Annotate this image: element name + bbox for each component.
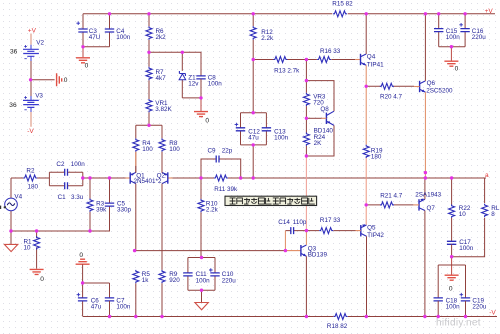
capacitor C11 (183, 258, 215, 291)
junction at 465.1,13.8 (463, 12, 466, 15)
svg-text:220u: 220u (472, 34, 487, 41)
wire R19 bottom to Q5 (salmon, crosses output rail) (365, 158, 367, 225)
junction at 201.5,290.2 (200, 289, 203, 292)
junction at 109.5,178 (108, 176, 111, 179)
svg-text:36: 36 (9, 102, 17, 109)
junction at 201.5,257.5 (200, 256, 203, 259)
capacitor C3 (76, 14, 100, 47)
svg-text:36: 36 (10, 49, 18, 56)
svg-text:100: 100 (169, 146, 180, 153)
wire zener branch y=52.3 (149, 52, 201, 76)
svg-text:TIP41: TIP41 (367, 61, 384, 68)
junction at 253.2,59.5 (252, 58, 255, 61)
wire C12/C13 bottom to output rail (241, 145, 267, 178)
svg-text:0: 0 (64, 77, 68, 84)
svg-text:47u: 47u (248, 135, 259, 142)
capacitor C5 (105, 178, 132, 213)
capacitor C9 (201, 147, 241, 178)
svg-text:100n: 100n (208, 81, 223, 88)
resistor R17 (306, 217, 355, 233)
wire input/output main horizontal y=178 (83, 177, 486, 179)
svg-text:Q4: Q4 (367, 54, 376, 61)
capacitor C6 (77, 283, 102, 317)
svg-text:+V: +V (485, 8, 494, 15)
svg-text:R16 33: R16 33 (320, 48, 341, 55)
junction at 306.4,118.3 (305, 117, 308, 120)
svg-text:0: 0 (455, 66, 459, 73)
svg-text:39k: 39k (96, 206, 107, 213)
capacitor C17 (447, 239, 474, 257)
svg-text:BD139: BD139 (308, 252, 328, 259)
resistor R22 (449, 178, 471, 241)
svg-text:100n: 100n (71, 161, 86, 168)
junction at 149,125.3 (147, 124, 150, 127)
svg-text:V2: V2 (36, 39, 44, 46)
transistor Q8 BD140 (306, 106, 334, 156)
wire C3/C4 bottom (83, 46, 110, 48)
junction at 253.2,144.9 (252, 143, 255, 146)
transistor Q3 BD139 (285, 231, 327, 317)
svg-text:0: 0 (40, 276, 44, 283)
svg-text:3.82K: 3.82K (155, 106, 172, 113)
resistor R6 (146, 14, 166, 53)
wire Q3 base line y=250.6 (135, 250, 286, 252)
junction at 306.4,156 (305, 154, 308, 157)
svg-text:920: 920 (169, 277, 180, 284)
svg-text:100n: 100n (116, 304, 131, 311)
junction at 201,97.9 (199, 96, 202, 99)
wire -V bottom rail right segment (348, 316, 497, 318)
junction at 451.4,46.7 (450, 45, 453, 48)
svg-text:180: 180 (371, 153, 382, 160)
junction at 30.6,79.8 (29, 78, 32, 81)
zener Z1 (179, 52, 199, 98)
junction at 306.4,59.5 (305, 58, 308, 61)
svg-text:R11 39k: R11 39k (214, 186, 238, 193)
svg-text:47U: 47U (89, 34, 101, 41)
junction at 306.4,316.5 (305, 315, 308, 318)
wire VAS column (light) (305, 156, 307, 231)
svg-text:hifidiy.net: hifidiy.net (436, 318, 481, 329)
resistor R5 (133, 270, 151, 317)
svg-text:10: 10 (24, 244, 32, 251)
junction at 253.2,112.7 (252, 111, 255, 114)
svg-text:R2: R2 (26, 168, 35, 175)
junction at 162,316.5 (160, 315, 163, 318)
svg-text:100n: 100n (116, 34, 131, 41)
capacitor C19 (460, 293, 487, 317)
svg-text:R13 2.7k: R13 2.7k (274, 68, 300, 75)
resistor R7 (146, 52, 166, 99)
capacitor C8 (196, 75, 222, 98)
svg-text:2SC5200: 2SC5200 (426, 88, 453, 95)
junction at 366.3,316.5 (365, 315, 368, 318)
resistor R20 (366, 83, 414, 100)
svg-text:Q7: Q7 (427, 205, 436, 212)
svg-text:Q8: Q8 (320, 106, 329, 113)
capacitor C14 (278, 219, 307, 234)
tooltip box (225, 196, 317, 205)
resistor R9 (159, 270, 180, 317)
svg-text:R17 33: R17 33 (320, 217, 341, 224)
capacitor C10 (209, 258, 236, 291)
junction at 149,13.8 (147, 12, 150, 15)
capacitor C4 (105, 14, 131, 47)
resistor R10 (198, 178, 219, 258)
svg-text:2.2k: 2.2k (206, 207, 219, 214)
svg-text:TIP42: TIP42 (367, 232, 384, 239)
transistor Q1 2N5401 (126, 152, 146, 251)
svg-text:V4: V4 (14, 193, 22, 200)
resistor R24 (303, 118, 333, 156)
junction at 182.3,52.3 (181, 51, 184, 54)
junction at 366.2,13.8 (365, 12, 368, 15)
svg-text:8: 8 (491, 211, 495, 218)
svg-text:12v: 12v (188, 81, 199, 88)
transistor Q7 2SA1943 (413, 178, 441, 317)
svg-text:4k7: 4k7 (156, 75, 167, 82)
capacitor C13 (262, 113, 289, 145)
resistor R1 (24, 231, 40, 269)
svg-text:+V: +V (28, 27, 37, 34)
junction at 451.6,178 (450, 176, 453, 179)
svg-text:0: 0 (85, 63, 89, 70)
wire C18/C19 top (438, 265, 465, 298)
svg-text:10: 10 (459, 211, 467, 218)
junction at 11,231 (9, 229, 12, 232)
wire ground rail y=231 (11, 212, 110, 231)
junction at 366.2,204.9 (365, 203, 368, 206)
resistor R12 (250, 14, 274, 60)
ground under V4 (triangle) (4, 231, 17, 252)
junction at 90,231 (88, 229, 91, 232)
svg-text:R15 82: R15 82 (332, 1, 353, 8)
svg-text:2N5401*2: 2N5401*2 (134, 178, 163, 185)
wire zener bottom (182, 97, 201, 99)
resistor R13 (253, 57, 306, 75)
wire C15/C16 bottom (439, 46, 465, 48)
ground 0 mid supply (rotated right) (31, 73, 68, 86)
svg-text:220u: 220u (222, 277, 237, 284)
svg-text:100n: 100n (446, 34, 461, 41)
svg-text:1k: 1k (142, 277, 150, 284)
resistor R19 (363, 145, 383, 161)
wire VR1 bottom to R4/R8 (136, 125, 162, 138)
junction at 438.2,316.5 (437, 315, 440, 318)
resistor R16 (306, 48, 355, 62)
junction at 149,52.3 (147, 51, 150, 54)
resistor R2 (11, 168, 49, 191)
transistor Q2 2N5401 (134, 166, 202, 270)
resistor R3 (87, 178, 107, 231)
svg-text:47u: 47u (91, 304, 102, 311)
resistor R8 (159, 138, 180, 172)
svg-text:100n: 100n (274, 135, 289, 142)
junction at 135.8,316.5 (134, 315, 137, 318)
resistor VR1 (146, 99, 173, 125)
capacitor C1 (bottom branch) (49, 182, 83, 201)
capacitor C7 (105, 298, 131, 317)
svg-text:100: 100 (142, 146, 153, 153)
resistor RL (452, 178, 500, 257)
junction at 285.4,250.6 (284, 249, 287, 252)
junction at 83,46.8 (81, 45, 84, 48)
capacitor C2 (top branch) (49, 161, 85, 186)
capacitor C15 (434, 14, 460, 47)
junction at 306.4,80.6 (305, 79, 308, 82)
svg-text:0: 0 (205, 118, 209, 125)
junction at 201,178 (199, 176, 202, 179)
wire +V top rail right segment (348, 13, 495, 15)
ground under R1 (30, 269, 45, 283)
wire Q4 emitter column (orange) (365, 65, 367, 145)
junction at 465.5,316.5 (464, 315, 467, 318)
junction at 425.4,13.8 (424, 12, 427, 15)
battery V3 (9, 92, 43, 135)
wire Vbe multiplier top (306, 60, 334, 112)
svg-text:-V: -V (27, 128, 34, 135)
source V4 (0, 178, 23, 231)
capacitor C12 (235, 113, 267, 145)
junction at 109.5,316.5 (108, 315, 111, 318)
svg-text:0: 0 (449, 286, 453, 293)
junction at 253.2,13.8 (252, 12, 255, 15)
svg-text:C9: C9 (208, 147, 217, 154)
ground under C11/C10 (triangle) (195, 290, 208, 310)
svg-text:2.2k: 2.2k (261, 35, 274, 42)
svg-text:V3: V3 (35, 92, 43, 99)
junction at 82.8,178 (81, 176, 84, 179)
battery V2 (10, 27, 44, 61)
resistor R11 (214, 175, 238, 193)
transistor Q6 2SC5200 (414, 14, 453, 95)
ground under C3 (76, 47, 90, 70)
svg-text:100n: 100n (459, 245, 474, 252)
svg-text:220u: 220u (472, 304, 487, 311)
wire C14 left to Q3 base (orange) (284, 231, 286, 251)
resistor R21 (366, 193, 413, 208)
svg-text:R21 4.7: R21 4.7 (380, 193, 403, 200)
resistor VR3 (303, 81, 326, 119)
svg-text:Q6: Q6 (427, 80, 436, 87)
ground under zener (194, 98, 209, 125)
junction at 306.4,230.6 (305, 229, 308, 232)
resistor R18 (327, 314, 348, 331)
capacitor C18 (434, 298, 461, 317)
junction at 253.2,178 (252, 176, 255, 179)
junction at 451.6,256.7 (450, 255, 453, 258)
svg-text:-V: -V (489, 310, 496, 317)
junction at 109.5,13.8 (108, 12, 111, 15)
junction at 438.7,13.8 (437, 12, 440, 15)
transistor Q4 TIP41 (355, 14, 384, 69)
svg-text:2SA1943: 2SA1943 (415, 192, 441, 199)
ground below C15/C16 (444, 47, 458, 73)
wire V2 to V3 (30, 61, 32, 96)
junction at 425.4,172.6 (424, 171, 427, 174)
junction at 425.4,178 (424, 176, 427, 179)
svg-text:R18 82: R18 82 (327, 323, 348, 330)
junction at 82.6,283 (81, 281, 84, 284)
svg-text:C14: C14 (278, 219, 290, 226)
capacitor C16 (459, 14, 486, 47)
svg-text:100n: 100n (196, 277, 211, 284)
junction at 36.6,231 (35, 229, 38, 232)
svg-text:3.3u: 3.3u (71, 194, 84, 201)
junction at 90,178 (88, 176, 91, 179)
resistor R15 (332, 1, 353, 17)
wire +V top rail left segment (83, 13, 332, 15)
junction at 134.6,250.6 (133, 249, 136, 252)
svg-text:330p: 330p (117, 206, 132, 213)
wire bootstrap column (252, 60, 254, 113)
transistor Q5 TIP42 (356, 224, 385, 316)
svg-text:100n: 100n (446, 304, 461, 311)
svg-text:2k2: 2k2 (156, 34, 167, 41)
wire Q6 emitter to output (orange) (424, 92, 426, 178)
ground above C6/C7 (inverted) (76, 252, 90, 283)
svg-text:a: a (485, 172, 489, 179)
svg-text:110p: 110p (293, 219, 307, 226)
resistor R4 (133, 138, 154, 172)
svg-text:R20 4.7: R20 4.7 (380, 94, 403, 101)
wire C6/C7 top (83, 283, 110, 298)
junction at 240.7,178 (239, 176, 242, 179)
junction at 366.2,86.3 (365, 85, 368, 88)
svg-text:C1: C1 (58, 194, 67, 201)
svg-text:Q5: Q5 (367, 225, 376, 232)
svg-text:180: 180 (28, 183, 39, 190)
svg-text:0: 0 (79, 252, 83, 259)
junction at 424.9,316.5 (423, 315, 426, 318)
wire -V bottom rail left segment (83, 316, 333, 318)
svg-text:22p: 22p (222, 147, 233, 154)
svg-text:C2: C2 (56, 161, 65, 168)
ground below C17 (445, 257, 459, 293)
svg-text:2K: 2K (314, 140, 323, 147)
wire C11/C10 bottom (188, 289, 215, 291)
